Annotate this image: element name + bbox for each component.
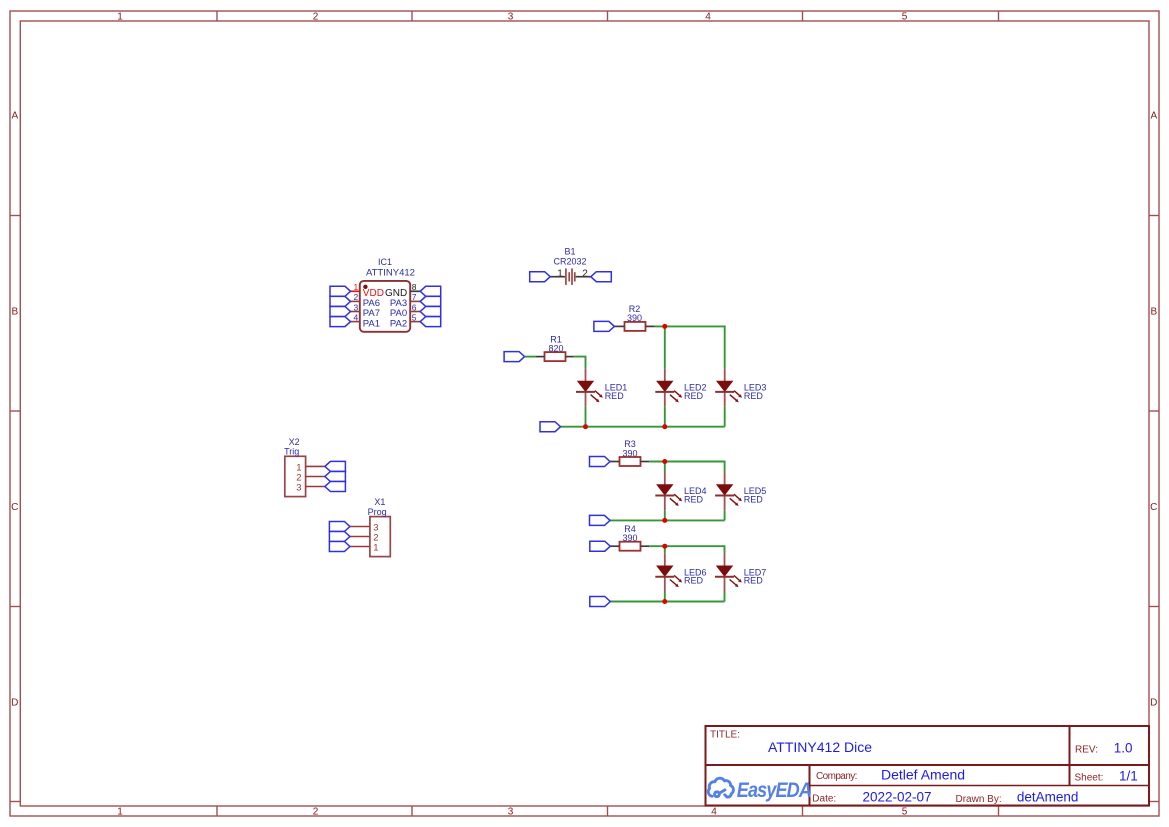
svg-text:3: 3 xyxy=(508,807,514,818)
svg-text:3: 3 xyxy=(353,302,358,312)
svg-text:2: 2 xyxy=(313,12,319,23)
svg-text:ATTINY412 Dice: ATTINY412 Dice xyxy=(768,739,872,755)
svg-text:RED: RED xyxy=(744,391,764,401)
junction at R4 node xyxy=(662,544,667,549)
svg-text:820: 820 xyxy=(548,344,563,354)
resistor R4 xyxy=(620,542,641,551)
svg-text:detAmend: detAmend xyxy=(1017,789,1079,804)
net port at R4 input xyxy=(590,541,611,551)
net ports at X2 pins xyxy=(325,461,346,491)
rail wire group 2 xyxy=(610,519,725,521)
wire LED4 to rail 2 xyxy=(664,510,666,520)
svg-text:4: 4 xyxy=(711,807,717,818)
svg-text:A: A xyxy=(1150,111,1157,122)
wire node down to LED4 xyxy=(664,462,666,473)
svg-text:6: 6 xyxy=(412,302,417,312)
LED5 labels xyxy=(744,486,767,504)
net port at B1 pin 2 xyxy=(591,272,612,282)
junction LED1 rail xyxy=(583,424,588,429)
svg-text:5: 5 xyxy=(412,312,417,322)
svg-text:1: 1 xyxy=(353,282,358,292)
svg-text:X1: X1 xyxy=(374,497,385,507)
X1 pin numbers xyxy=(373,522,378,553)
svg-text:1/1: 1/1 xyxy=(1119,769,1138,784)
X2 pin 2 wire xyxy=(306,476,325,478)
LED LED2 RED xyxy=(664,368,666,381)
svg-text:B: B xyxy=(11,307,18,318)
svg-text:REV:: REV: xyxy=(1075,744,1098,755)
X1 pin 3 wire xyxy=(350,526,370,528)
X2 pin 1 wire xyxy=(306,465,325,467)
svg-text:3: 3 xyxy=(508,12,514,23)
svg-text:TITLE:: TITLE: xyxy=(710,730,740,741)
LED6 labels xyxy=(684,567,707,585)
IC1 pin 3 wire xyxy=(351,311,360,313)
svg-text:3: 3 xyxy=(296,482,301,493)
svg-text:2: 2 xyxy=(313,807,319,818)
svg-text:A: A xyxy=(11,111,18,122)
wire LED7 to rail 3 xyxy=(724,592,726,602)
resistor R3 xyxy=(620,457,641,466)
wire LED5 to rail 2 xyxy=(724,510,726,520)
svg-text:Sheet:: Sheet: xyxy=(1075,773,1104,784)
wire LED3 to bottom rail xyxy=(724,407,726,427)
net port at R2 input xyxy=(594,321,615,331)
LED1 labels xyxy=(605,383,628,401)
wire LED6 to rail 3 xyxy=(664,592,666,602)
connector X2 Trig body xyxy=(285,456,306,496)
svg-text:Trig: Trig xyxy=(284,447,299,457)
net port at B1 pin 1 xyxy=(530,272,551,282)
bottom rail wire group 1 xyxy=(561,426,725,428)
junction LED6 rail xyxy=(662,599,667,604)
svg-text:1.0: 1.0 xyxy=(1114,740,1133,755)
svg-text:1: 1 xyxy=(117,807,123,818)
svg-text:4: 4 xyxy=(705,12,711,23)
wire R3 node to LED5 branch xyxy=(649,462,724,473)
LED LED7 RED xyxy=(724,553,726,566)
wire node down to LED2 xyxy=(664,326,666,368)
IC1 pin 6 wire xyxy=(410,311,420,313)
svg-text:C: C xyxy=(11,502,18,513)
svg-text:390: 390 xyxy=(622,533,637,543)
svg-text:7: 7 xyxy=(412,292,417,302)
svg-text:5: 5 xyxy=(902,12,908,23)
svg-text:Company:: Company: xyxy=(816,771,857,782)
R4 pin wires xyxy=(610,545,649,547)
resistor R1 xyxy=(545,352,566,361)
R1 pin wires xyxy=(535,356,574,358)
svg-text:RED: RED xyxy=(744,576,764,586)
IC1 left pin numbers 1-4 xyxy=(353,282,358,322)
IC1 pin 4 wire xyxy=(351,321,360,323)
LED LED5 RED xyxy=(724,472,726,485)
svg-text:Drawn By:: Drawn By: xyxy=(956,794,1002,805)
IC1 pin 1 wire (VDD, red) xyxy=(351,290,360,292)
svg-text:2022-02-07: 2022-02-07 xyxy=(863,789,932,804)
LED7 labels xyxy=(744,567,767,585)
svg-text:8: 8 xyxy=(412,282,417,292)
net port at group3 rail xyxy=(590,597,611,607)
X1 pin 2 wire xyxy=(350,536,370,538)
X2 pin numbers xyxy=(296,462,301,493)
R3 pin wires xyxy=(610,461,649,463)
junction at R3 node xyxy=(662,459,667,464)
IC U1: IC1 ATTINY412 body xyxy=(360,281,410,332)
LED LED4 RED xyxy=(664,472,666,485)
battery B1 CR2032 xyxy=(566,268,575,285)
svg-text:B: B xyxy=(1150,307,1157,318)
svg-text:PA1: PA1 xyxy=(363,318,380,329)
wire LED2 to bottom rail xyxy=(664,407,666,427)
svg-text:RED: RED xyxy=(684,494,704,504)
IC1 pin 8 wire (GND, black) xyxy=(410,290,420,292)
junction LED4 rail xyxy=(662,518,667,523)
svg-text:2: 2 xyxy=(582,268,588,279)
svg-text:D: D xyxy=(1150,698,1157,709)
connector X1 Prog body xyxy=(370,517,390,557)
X1 pin 1 wire xyxy=(350,546,370,548)
svg-text:1: 1 xyxy=(117,12,123,23)
net port at group1 rail xyxy=(540,422,561,432)
EasyEDA logo cloud xyxy=(708,778,733,797)
svg-text:RED: RED xyxy=(605,391,625,401)
wire R1 to LED1 xyxy=(574,357,586,369)
LED3 labels xyxy=(744,383,767,401)
svg-text:4: 4 xyxy=(353,312,358,322)
LED4 labels xyxy=(684,486,707,504)
svg-text:PA2: PA2 xyxy=(390,318,407,329)
R2 pin wires xyxy=(614,325,654,327)
LED LED6 RED xyxy=(664,553,666,566)
B1 pin numbers xyxy=(557,268,588,279)
svg-text:1: 1 xyxy=(557,268,563,279)
svg-text:5: 5 xyxy=(902,807,908,818)
X2 pin 3 wire xyxy=(306,486,325,488)
svg-text:Date:: Date: xyxy=(812,793,836,804)
IC1 pin names xyxy=(363,288,407,329)
svg-text:390: 390 xyxy=(627,313,642,323)
title block frame xyxy=(706,726,1150,806)
svg-text:EasyEDA: EasyEDA xyxy=(737,779,811,803)
net port at R3 input xyxy=(590,457,611,467)
svg-text:C: C xyxy=(1150,502,1157,513)
B1 pin 2 wire xyxy=(576,276,591,278)
wire node down to LED6 xyxy=(664,546,666,553)
svg-text:Detlef Amend: Detlef Amend xyxy=(881,767,965,783)
svg-text:Prog: Prog xyxy=(368,507,387,517)
wire R4 node to LED7 branch xyxy=(649,546,724,553)
junction LED2 rail xyxy=(662,424,667,429)
resistor R2 xyxy=(625,322,646,331)
svg-text:CR2032: CR2032 xyxy=(553,257,586,267)
svg-text:ATTINY412: ATTINY412 xyxy=(366,268,415,279)
svg-text:RED: RED xyxy=(684,391,704,401)
net port at group2 rail xyxy=(590,515,611,525)
svg-text:B1: B1 xyxy=(564,247,575,257)
net port at R1 input xyxy=(504,352,524,362)
IC1 pin 5 wire xyxy=(410,321,420,323)
net ports at IC1 right pins xyxy=(420,286,441,326)
B1 pin 1 wire xyxy=(550,276,565,278)
net ports at X1 pins xyxy=(329,522,350,552)
svg-text:2: 2 xyxy=(353,292,358,302)
wire LED1 to bottom rail xyxy=(585,407,587,427)
svg-text:RED: RED xyxy=(684,576,704,586)
wire R2 to node, across to LED3 branch xyxy=(655,326,725,368)
junction at R2 node xyxy=(662,324,667,329)
LED LED1 RED xyxy=(585,368,587,381)
IC1 pin 7 wire xyxy=(410,300,420,302)
svg-text:RED: RED xyxy=(744,494,764,504)
svg-text:D: D xyxy=(11,698,18,709)
net ports at IC1 left pins xyxy=(330,286,351,326)
IC1 pin 2 wire xyxy=(351,300,360,302)
svg-text:IC1: IC1 xyxy=(378,257,392,267)
svg-text:1: 1 xyxy=(373,542,378,553)
LED LED3 RED xyxy=(724,368,726,381)
LED2 labels xyxy=(684,383,707,401)
wire port to R1 xyxy=(525,356,536,358)
svg-text:390: 390 xyxy=(622,449,637,459)
svg-text:X2: X2 xyxy=(289,437,300,447)
rail wire group 3 xyxy=(610,601,724,603)
IC1 right pin numbers 8-5 xyxy=(412,282,417,322)
